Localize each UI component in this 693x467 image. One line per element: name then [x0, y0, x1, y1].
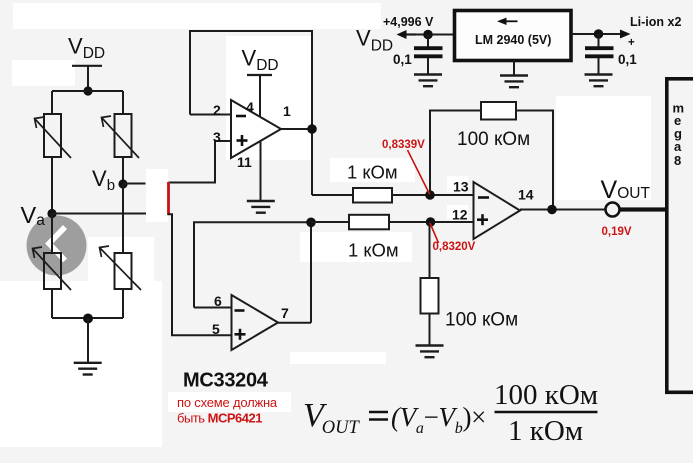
svg-text:0,19V: 0,19V [602, 226, 632, 238]
wire arrow to LM box [414, 34, 455, 36]
regulator LM2940 box [455, 11, 572, 61]
wire bridge bottom [52, 317, 123, 319]
op-amp U1A triangle [231, 100, 281, 158]
svg-text:LM 2940 (5V): LM 2940 (5V) [475, 33, 551, 47]
svg-text:1: 1 [283, 103, 291, 119]
output terminal circle [606, 203, 620, 217]
output stub U1A [281, 128, 312, 130]
red pointer line 0,8320V [430, 223, 439, 243]
minus sign U1B [235, 309, 245, 312]
wire U1A out down to R upper [312, 194, 353, 196]
white patch formula top [290, 352, 386, 364]
node Va [47, 209, 56, 218]
pin2 wire [190, 114, 231, 116]
wire lower-right down [122, 289, 124, 318]
white patch bridge lower-right [88, 237, 154, 291]
wire Va down [51, 214, 53, 254]
svg-text:12: 12 [452, 207, 468, 223]
resistor bridge upper-right [115, 114, 132, 157]
wire Vb stub right [123, 183, 146, 185]
svg-text:4: 4 [246, 99, 254, 115]
svg-text:13: 13 [453, 179, 469, 195]
wire pin12 down to 100k [429, 222, 431, 278]
white patch wire gap region [146, 169, 168, 222]
arrow upper-left resistor [35, 117, 72, 158]
resistor R upper 1k [353, 188, 392, 203]
wire junction to R lower 1k [311, 221, 349, 223]
node pin12 [426, 217, 436, 227]
wire bottom to ground [87, 318, 89, 362]
wire VDD to bridge top [87, 65, 89, 91]
arrow to VDD [397, 30, 417, 39]
white patch around upper 1k label [330, 158, 415, 182]
svg-text:0,1: 0,1 [618, 52, 637, 67]
capacitor C1 [414, 35, 443, 74]
wire pin4 supply [259, 75, 261, 117]
svg-text:5: 5 [212, 321, 220, 337]
svg-text:MC33204: MC33204 [183, 370, 269, 392]
arrow upper-right resistor [102, 116, 140, 158]
resistor bridge lower-right [115, 253, 132, 289]
node left cap [423, 30, 433, 40]
wire left upper [51, 91, 53, 114]
node diff output [547, 205, 557, 215]
svg-text:+: + [628, 37, 635, 49]
carousel chevron [49, 227, 65, 261]
white patch behind red note [168, 392, 291, 412]
pin 11 ground stub [260, 141, 262, 201]
svg-text:a: a [674, 139, 682, 154]
plus sign diff [477, 214, 488, 225]
minus sign diff [478, 196, 489, 199]
wire left to Va [51, 157, 53, 214]
mega8 box [667, 79, 693, 393]
node right cap [594, 29, 604, 39]
svg-text:(Va−Vb)×: (Va−Vb)× [391, 402, 486, 437]
arrow to battery [620, 30, 631, 39]
svg-text:+4,996 V: +4,996 V [383, 15, 434, 29]
arrow inside regulator [497, 18, 518, 25]
svg-text:0,8320V: 0,8320V [433, 241, 476, 253]
white patch top strip [13, 3, 381, 29]
node U1B feedback junction [306, 218, 316, 228]
resistor 100k feedback [481, 102, 516, 120]
svg-text:0,8339V: 0,8339V [382, 139, 425, 151]
red pointer line 0,8339V [408, 150, 430, 194]
white patch left mid [0, 281, 162, 447]
svg-text:Li-ion x2: Li-ion x2 [630, 15, 681, 29]
svg-text:1 кОм: 1 кОм [508, 415, 583, 447]
ground 100k [416, 346, 444, 358]
feedback loop 100k [430, 111, 553, 210]
svg-text:2: 2 [213, 102, 221, 118]
wire Vb down [122, 184, 124, 253]
white bottom edge strip [0, 463, 693, 467]
VDD supply bar [72, 65, 102, 67]
ground LM box [513, 61, 515, 75]
thick wire to mega8 [620, 207, 668, 211]
red jumper wire [167, 182, 170, 215]
wire right to Vb [122, 157, 124, 184]
white patch left of bridge supply [12, 60, 75, 86]
plus sign U1A [237, 135, 248, 146]
node pin13 [425, 190, 435, 200]
plus sign U1B [235, 329, 246, 340]
svg-text:11: 11 [237, 154, 252, 170]
node bridge bottom [83, 314, 93, 324]
arrow lower-right resistor [100, 246, 142, 290]
wire R lower to pin12 [389, 221, 474, 223]
svg-text:0,1: 0,1 [393, 52, 412, 67]
wire bridge top horizontal [52, 90, 123, 92]
node U1A output [307, 124, 317, 134]
svg-text:100 кОм: 100 кОм [457, 129, 530, 150]
carousel prev button [27, 216, 87, 276]
white patch below lower 1k [300, 232, 412, 262]
node Vb [118, 179, 127, 188]
wire R upper to pin13 [392, 194, 474, 196]
minus sign U1A [236, 115, 246, 118]
resistor bridge lower-left [44, 253, 61, 289]
formula = sign [369, 412, 388, 420]
ground symbol LM [500, 76, 528, 88]
wire Va horizontal [52, 213, 146, 215]
wire 100k to ground [429, 314, 431, 345]
node bridge top [83, 86, 92, 95]
wire upper-right branch [122, 91, 124, 114]
wire LM box to battery [571, 33, 620, 35]
svg-text:100 кОм: 100 кОм [445, 310, 518, 331]
ground C2 [585, 75, 613, 87]
output wire diff [520, 209, 606, 211]
svg-text:по схеме должна: по схеме должна [177, 395, 278, 410]
ground op1 [247, 201, 275, 213]
wire lower-left down [51, 289, 53, 318]
feedback loop U1A [190, 31, 312, 195]
svg-text:6: 6 [214, 293, 222, 309]
capacitor C2 [585, 34, 614, 74]
pin6 wire [194, 307, 232, 309]
white patch near VOUT [556, 96, 651, 200]
svg-text:14: 14 [518, 187, 534, 203]
wire Vb-row to pin3 riser [169, 141, 232, 183]
svg-text:быть MCP6421: быть MCP6421 [177, 411, 262, 426]
svg-text:3: 3 [213, 129, 221, 145]
resistor R lower 1k [349, 215, 389, 230]
svg-text:1 кОм: 1 кОм [348, 240, 399, 261]
svg-text:8: 8 [674, 153, 681, 168]
formula fraction bar [495, 411, 598, 413]
output stub U1B [278, 322, 311, 324]
white patch op1 interior [226, 36, 312, 160]
op-amp diff triangle [474, 182, 521, 239]
resistor 100k to ground [421, 278, 439, 314]
ground bridge [74, 363, 102, 375]
arrow lower-left resistor [33, 247, 72, 290]
resistor bridge upper-left [44, 114, 61, 157]
white patch pin labels [447, 176, 468, 192]
feedback loop U1B [194, 222, 311, 322]
svg-text:7: 7 [281, 305, 289, 321]
svg-text:100 кОм: 100 кОм [494, 379, 598, 411]
op-amp U1B triangle [232, 295, 279, 350]
wire red bottom step [168, 214, 232, 335]
ground C1 [414, 75, 442, 87]
VDD supply bar op1 [247, 74, 272, 76]
svg-text:1 кОм: 1 кОм [347, 162, 398, 183]
